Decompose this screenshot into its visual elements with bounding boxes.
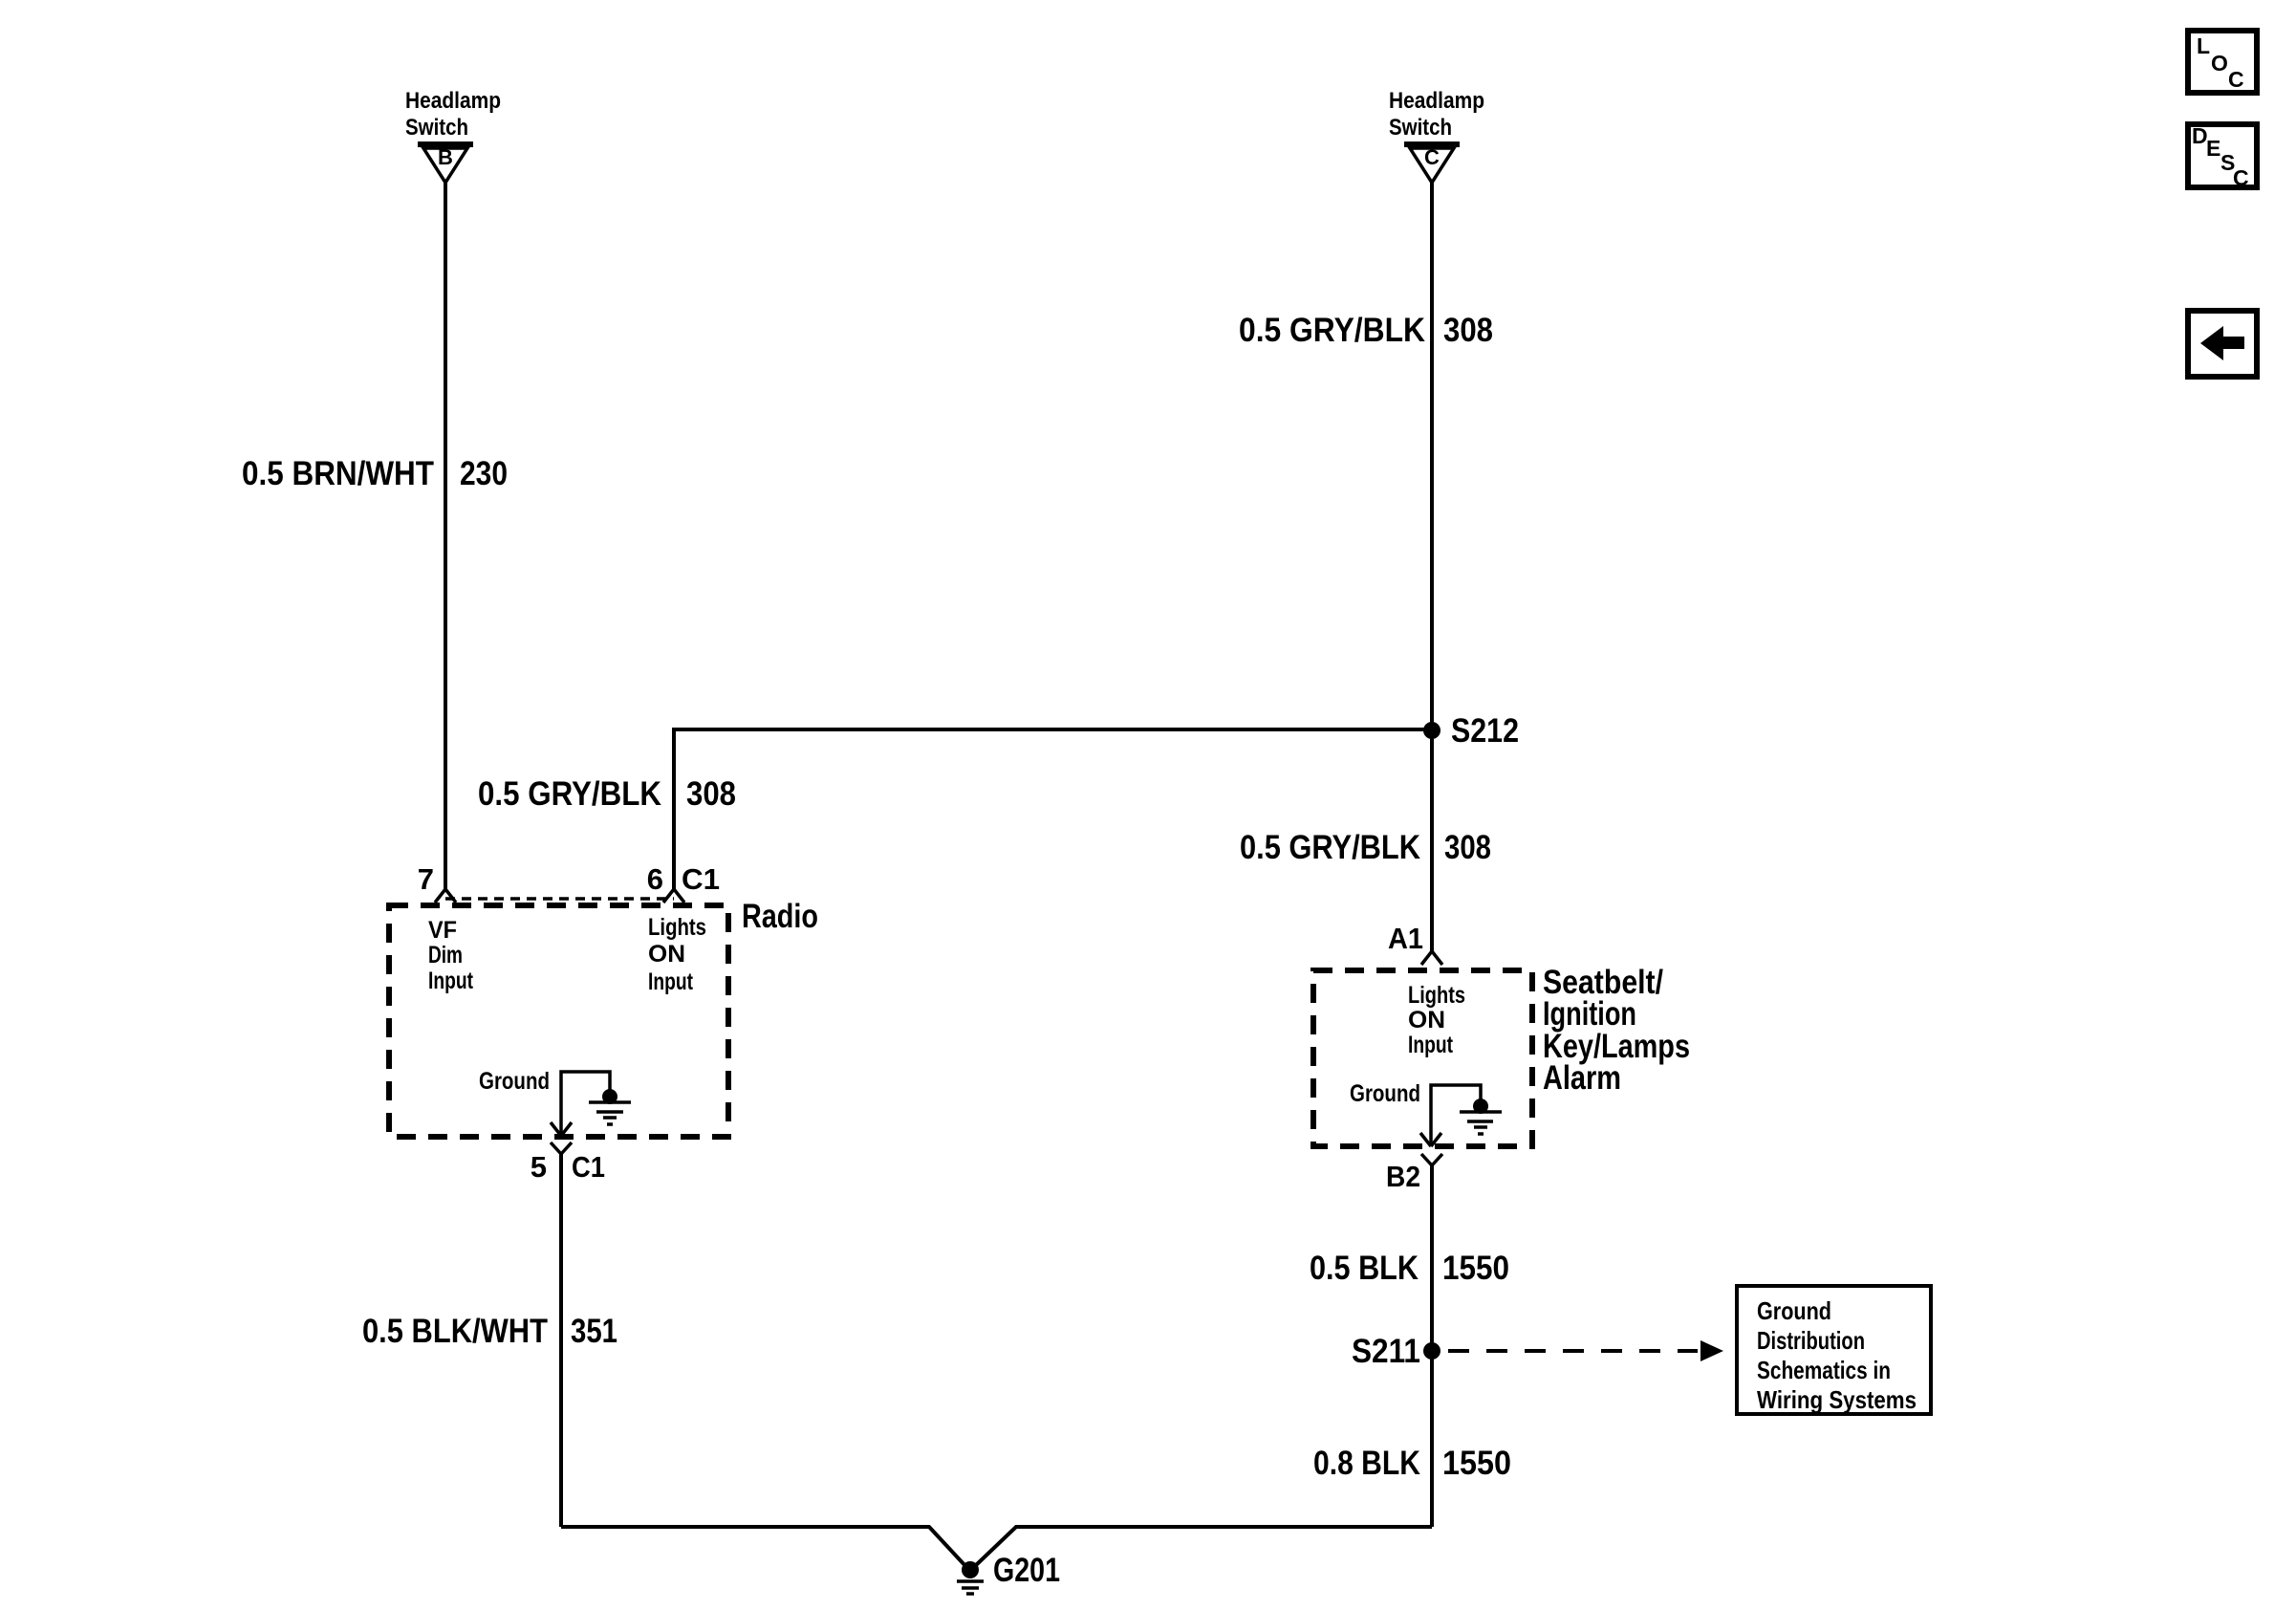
svg-text:5: 5 <box>531 1150 547 1184</box>
svg-text:0.5 BLK: 0.5 BLK <box>1310 1250 1419 1287</box>
svg-text:0.5 GRY/BLK: 0.5 GRY/BLK <box>478 775 661 813</box>
svg-text:0.8 BLK: 0.8 BLK <box>1313 1445 1420 1482</box>
svg-text:Alarm: Alarm <box>1543 1059 1621 1097</box>
svg-text:B2: B2 <box>1386 1160 1420 1193</box>
svg-text:Headlamp: Headlamp <box>1389 88 1484 114</box>
svg-text:Input: Input <box>1408 1032 1454 1058</box>
svg-text:230: 230 <box>460 455 508 492</box>
svg-text:C: C <box>2228 67 2244 92</box>
svg-text:308: 308 <box>1444 829 1491 866</box>
svg-text:L: L <box>2197 33 2210 58</box>
svg-text:1550: 1550 <box>1442 1445 1511 1482</box>
svg-text:G201: G201 <box>993 1552 1060 1589</box>
svg-text:C1: C1 <box>682 862 720 896</box>
svg-text:ON: ON <box>1408 1007 1445 1033</box>
svg-text:S212: S212 <box>1451 712 1519 750</box>
svg-text:0.5 BLK/WHT: 0.5 BLK/WHT <box>362 1313 548 1350</box>
svg-text:Headlamp: Headlamp <box>405 88 501 114</box>
svg-text:Ground: Ground <box>1350 1080 1420 1107</box>
svg-text:O: O <box>2211 51 2228 76</box>
svg-text:Ground: Ground <box>479 1068 550 1095</box>
svg-text:A1: A1 <box>1388 922 1423 955</box>
svg-text:Lights: Lights <box>1408 982 1465 1009</box>
svg-text:C: C <box>2233 165 2249 190</box>
svg-text:Lights: Lights <box>648 914 706 941</box>
svg-text:Input: Input <box>648 968 694 995</box>
svg-text:308: 308 <box>1443 312 1493 349</box>
svg-text:Switch: Switch <box>405 115 468 141</box>
svg-text:E: E <box>2206 136 2220 161</box>
svg-text:VF: VF <box>428 917 457 944</box>
svg-text:0.5 BRN/WHT: 0.5 BRN/WHT <box>242 455 434 492</box>
svg-text:6: 6 <box>647 862 663 896</box>
svg-text:0.5 GRY/BLK: 0.5 GRY/BLK <box>1240 829 1420 866</box>
svg-text:0.5 GRY/BLK: 0.5 GRY/BLK <box>1239 312 1425 349</box>
svg-text:C1: C1 <box>572 1150 605 1184</box>
svg-text:C: C <box>1424 145 1440 169</box>
svg-text:351: 351 <box>571 1313 617 1350</box>
svg-text:308: 308 <box>686 775 736 813</box>
svg-text:Input: Input <box>428 968 474 994</box>
svg-text:S211: S211 <box>1352 1333 1420 1370</box>
svg-text:Radio: Radio <box>742 898 818 935</box>
svg-text:Schematics in: Schematics in <box>1757 1356 1891 1384</box>
svg-text:7: 7 <box>418 862 434 896</box>
svg-text:B: B <box>438 145 453 169</box>
svg-text:Switch: Switch <box>1389 115 1452 141</box>
svg-text:Distribution: Distribution <box>1757 1326 1865 1355</box>
svg-text:Dim: Dim <box>428 942 463 968</box>
svg-text:Wiring Systems: Wiring Systems <box>1757 1385 1917 1414</box>
svg-text:Ground: Ground <box>1757 1296 1831 1325</box>
svg-text:ON: ON <box>648 941 685 968</box>
svg-text:1550: 1550 <box>1442 1250 1509 1287</box>
